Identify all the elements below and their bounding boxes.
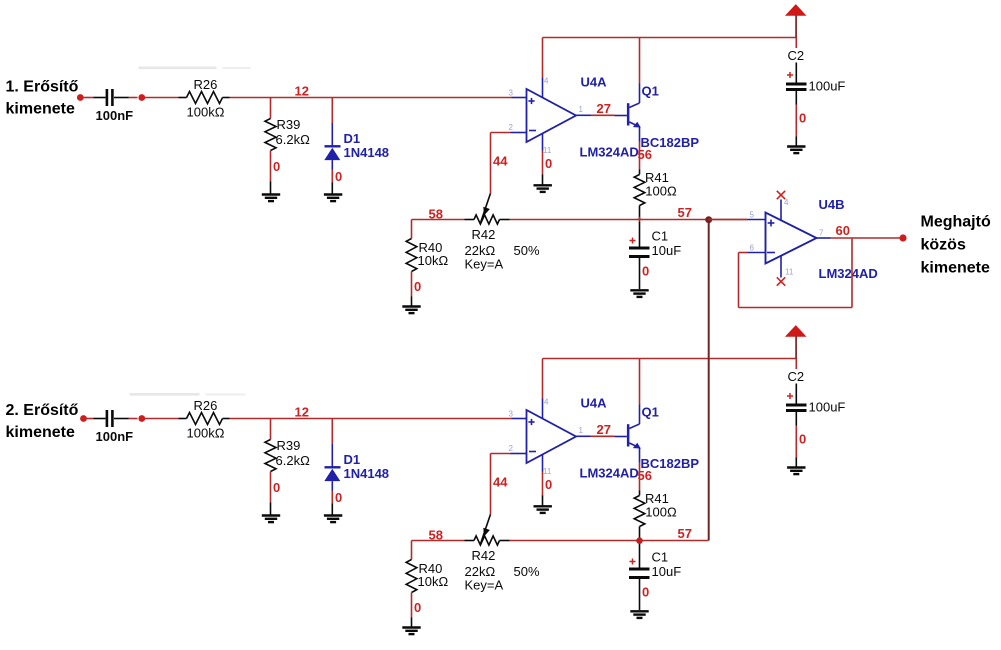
- svg-text:0: 0: [414, 600, 421, 615]
- ground under C1 (amp 1): [630, 290, 648, 297]
- svg-text:Q1: Q1: [642, 84, 659, 99]
- svg-text:44: 44: [493, 475, 508, 490]
- svg-text:kimenete: kimenete: [6, 424, 75, 441]
- svg-text:0: 0: [799, 111, 806, 126]
- wire C100n to dot (amp 1): [129, 97, 138, 99]
- svg-text:0: 0: [273, 159, 280, 174]
- svg-text:58: 58: [429, 528, 443, 543]
- ground under D1 (amp 2): [324, 516, 342, 523]
- wire rail down to C2 (amp 1): [795, 38, 797, 49]
- input terminal dot (amp 2): [80, 415, 87, 422]
- wire node 12 down to D1 (amp 1): [331, 98, 333, 124]
- wire D1 to ground, net 0 (amp 2): [331, 491, 333, 516]
- svg-text:R26: R26: [194, 398, 218, 413]
- ground under op-amp (amp 2): [534, 506, 552, 513]
- svg-text:12: 12: [295, 84, 309, 99]
- wire U4B feedback loop: [739, 238, 853, 308]
- svg-text:U4B: U4B: [819, 197, 845, 212]
- junction terminal dot 2 (amp 1): [138, 94, 145, 101]
- svg-text:100kΩ: 100kΩ: [187, 426, 225, 441]
- wire input dot to C100n (amp 1): [83, 97, 93, 99]
- ground under C2 (amp 1): [787, 147, 805, 154]
- svg-text:LM324AD: LM324AD: [580, 466, 639, 481]
- svg-text:közös: közös: [921, 237, 966, 254]
- wire net 58 left segment (amp 2): [412, 540, 465, 542]
- svg-text:U4A: U4A: [581, 396, 608, 411]
- ground under op-amp (amp 1): [534, 185, 552, 192]
- svg-text:D1: D1: [344, 131, 361, 146]
- resistor R39 (amp 1): [265, 117, 310, 151]
- svg-text:2: 2: [509, 123, 514, 132]
- svg-text:12: 12: [295, 405, 309, 420]
- diode D1 (amp 1): [324, 123, 389, 170]
- junction dot net 57 bottom: [636, 537, 643, 544]
- capacitor 100nF (amp 2): [94, 410, 134, 444]
- capacitor 100nF (amp 1): [94, 89, 134, 123]
- wire net 58 down to R40 (amp 1): [411, 220, 413, 239]
- wire U4B output net 60: [831, 237, 900, 239]
- svg-text:0: 0: [335, 490, 342, 505]
- potentiometer R42 (amp 1): [465, 193, 540, 271]
- svg-text:Q1: Q1: [642, 405, 659, 420]
- svg-text:1N4148: 1N4148: [344, 145, 390, 160]
- svg-text:LM324AD: LM324AD: [819, 266, 878, 281]
- svg-text:2: 2: [509, 444, 514, 453]
- svg-text:C2: C2: [788, 48, 805, 63]
- svg-text:50%: 50%: [514, 243, 540, 258]
- svg-text:1: 1: [579, 105, 584, 114]
- svg-text:100Ω: 100Ω: [645, 183, 677, 198]
- svg-text:R42: R42: [472, 548, 496, 563]
- svg-text:10uF: 10uF: [652, 564, 682, 579]
- svg-text:R39: R39: [277, 438, 301, 453]
- wire node 12 down to R39 (amp 2): [270, 419, 272, 440]
- ground under R40 (amp 1): [402, 307, 420, 314]
- wire op-amp pin11 to ground, net 0 (amp 2): [542, 472, 544, 507]
- svg-text:58: 58: [429, 207, 443, 222]
- wire net 44 from op-amp minus to pot wiper (amp 1): [491, 133, 511, 194]
- svg-text:5: 5: [750, 211, 755, 220]
- svg-text:0: 0: [545, 477, 552, 492]
- ground under C2 (amp 2): [787, 468, 805, 475]
- no-connect X on U4B pin 4: [777, 191, 785, 199]
- svg-text:0: 0: [799, 432, 806, 447]
- svg-text:11: 11: [543, 146, 552, 155]
- wire op-amp output net 27 (amp 2): [591, 435, 615, 437]
- wire R39 to ground, net 0 (amp 2): [270, 472, 272, 516]
- svg-text:1N4148: 1N4148: [344, 466, 390, 481]
- wire node 12 down to R39 (amp 1): [270, 98, 272, 119]
- svg-text:27: 27: [597, 422, 611, 437]
- svg-text:11: 11: [543, 467, 552, 476]
- output terminal dot: [899, 234, 906, 241]
- junction R41/C1 on mid wire (amp 2): [637, 538, 643, 544]
- wire C100n to dot (amp 2): [129, 418, 138, 420]
- transistor Q1 (amp 2): [615, 405, 641, 463]
- svg-text:100uF: 100uF: [809, 400, 846, 415]
- svg-text:7: 7: [819, 229, 824, 238]
- resistor R41 (amp 2): [634, 491, 677, 541]
- svg-text:56: 56: [638, 147, 652, 162]
- svg-text:4: 4: [544, 398, 549, 407]
- diode D1 (amp 2): [324, 444, 389, 491]
- svg-text:U4A: U4A: [581, 75, 608, 90]
- wire net 58 left segment (amp 1): [412, 219, 465, 221]
- wire C2 to ground, net 0 (amp 2): [795, 426, 797, 468]
- wire positive rail (amp 2): [543, 358, 797, 360]
- op-amp U4A (amp 2): [511, 399, 591, 472]
- wire D1 to ground, net 0 (amp 1): [331, 170, 333, 195]
- svg-text:100nF: 100nF: [96, 429, 134, 444]
- wire op-amp output net 27 (amp 1): [591, 114, 615, 116]
- wire net 57 right segment (amp 2): [510, 540, 709, 542]
- svg-text:50%: 50%: [514, 564, 540, 579]
- wire Q1 collector to rail (amp 1): [639, 38, 641, 84]
- resistor R40 (amp 2): [406, 560, 448, 593]
- ground under C1 (amp 2): [630, 611, 648, 618]
- junction dot net 57 top: [705, 216, 712, 223]
- svg-text:100Ω: 100Ω: [645, 504, 677, 519]
- wire input dot to C100n (amp 2): [87, 418, 94, 420]
- wire R26 to op-amp + input, net 12 (amp 2): [230, 418, 512, 420]
- svg-text:LM324AD: LM324AD: [580, 145, 639, 160]
- ground under D1 (amp 1): [324, 195, 342, 202]
- op-amp U4B: [748, 200, 831, 278]
- wire dot to R26 (amp 2): [145, 418, 179, 420]
- wire R40 to ground, net 0 (amp 1): [411, 272, 413, 307]
- svg-text:44: 44: [493, 154, 508, 169]
- svg-text:D1: D1: [344, 452, 361, 467]
- wire net 57 interconnect vertical: [708, 220, 710, 541]
- wire node 12 down to D1 (amp 2): [331, 419, 333, 445]
- svg-text:Key=A: Key=A: [465, 578, 504, 593]
- svg-text:4: 4: [784, 198, 789, 207]
- svg-text:10kΩ: 10kΩ: [418, 253, 449, 268]
- svg-text:C1: C1: [652, 229, 669, 244]
- resistor R26 (amp 2): [179, 398, 230, 441]
- svg-text:0: 0: [545, 156, 552, 171]
- svg-text:10uF: 10uF: [652, 243, 682, 258]
- output label: [921, 214, 991, 277]
- junction terminal dot 2 (amp 2): [138, 415, 145, 422]
- resistor R40 (amp 1): [406, 239, 448, 272]
- wire R26 to op-amp + input, net 12 (amp 1): [230, 97, 512, 99]
- svg-text:0: 0: [273, 480, 280, 495]
- capacitor C2 (amp 1): [786, 48, 845, 105]
- svg-text:6: 6: [750, 244, 755, 253]
- svg-text:3: 3: [509, 89, 514, 98]
- power arrow VCC (amp 1): [785, 4, 807, 37]
- svg-text:57: 57: [678, 526, 692, 541]
- svg-text:kimenete: kimenete: [6, 101, 75, 118]
- faint watermark ghost bottom: [130, 393, 246, 396]
- capacitor C1 (amp 1): [629, 222, 681, 290]
- svg-text:C2: C2: [788, 369, 805, 384]
- svg-text:60: 60: [836, 223, 850, 238]
- transistor Q1 (amp 1): [615, 84, 641, 142]
- svg-text:R26: R26: [194, 77, 218, 92]
- svg-text:kimenete: kimenete: [921, 260, 990, 277]
- no-connect X on U4B pin 11: [777, 277, 785, 285]
- wire Q1 collector to rail (amp 2): [639, 359, 641, 405]
- wire R39 to ground, net 0 (amp 1): [270, 151, 272, 195]
- wire net 57 right segment (amp 1): [510, 219, 748, 221]
- input label amp 1: [6, 79, 79, 118]
- wire dot to R26 (amp 1): [145, 97, 179, 99]
- svg-text:R42: R42: [472, 227, 496, 242]
- svg-text:11: 11: [785, 268, 794, 277]
- wire R40 to ground, net 0 (amp 2): [411, 593, 413, 628]
- svg-text:100kΩ: 100kΩ: [187, 105, 225, 120]
- svg-text:1: 1: [579, 426, 584, 435]
- capacitor C1 (amp 2): [629, 543, 681, 611]
- svg-text:Meghajtó: Meghajtó: [921, 214, 991, 231]
- wire op-amp pin11 to ground, net 0 (amp 1): [542, 151, 544, 186]
- wire net 57 to U4B + input: [709, 219, 748, 221]
- wire C2 to ground, net 0 (amp 1): [795, 105, 797, 147]
- svg-text:56: 56: [638, 468, 652, 483]
- svg-text:10kΩ: 10kΩ: [418, 574, 449, 589]
- svg-text:6.2kΩ: 6.2kΩ: [276, 453, 311, 468]
- svg-text:0: 0: [642, 585, 649, 600]
- power arrow VCC (amp 2): [785, 325, 807, 358]
- wire net 58 down to R40 (amp 2): [411, 541, 413, 560]
- wire rail down to C2 (amp 2): [795, 359, 797, 370]
- resistor R41 (amp 1): [634, 170, 677, 220]
- svg-text:0: 0: [335, 169, 342, 184]
- potentiometer R42 (amp 2): [465, 514, 540, 592]
- wire op-amp pin4 up to rail (amp 2): [542, 359, 544, 399]
- resistor R39 (amp 2): [265, 438, 310, 472]
- svg-text:100uF: 100uF: [809, 79, 846, 94]
- ground under R39 (amp 2): [262, 516, 280, 523]
- svg-text:C1: C1: [652, 550, 669, 565]
- input label amp 2: [6, 402, 79, 441]
- faint watermark ghost top: [139, 67, 251, 70]
- svg-text:Key=A: Key=A: [465, 257, 504, 272]
- svg-text:0: 0: [414, 279, 421, 294]
- svg-text:1. Erősítő: 1. Erősítő: [6, 79, 79, 96]
- ground under R40 (amp 2): [402, 628, 420, 635]
- wire Q1 emitter to R41, net 56 (amp 1): [639, 142, 641, 170]
- resistor R26 (amp 1): [179, 77, 230, 120]
- svg-text:0: 0: [642, 264, 649, 279]
- svg-text:57: 57: [678, 205, 692, 220]
- capacitor C2 (amp 2): [786, 369, 845, 426]
- wire Q1 emitter to R41, net 56 (amp 2): [639, 463, 641, 491]
- op-amp U4A (amp 1): [511, 78, 591, 151]
- svg-text:6.2kΩ: 6.2kΩ: [276, 132, 311, 147]
- svg-text:2. Erősítő: 2. Erősítő: [6, 402, 79, 419]
- wire op-amp pin4 up to rail (amp 1): [542, 38, 544, 78]
- wire net 44 from op-amp minus to pot wiper (amp 2): [491, 454, 511, 515]
- svg-text:3: 3: [509, 410, 514, 419]
- ground under R39 (amp 1): [262, 195, 280, 202]
- junction R41/C1 on mid wire (amp 1): [637, 217, 643, 223]
- wire positive rail (amp 1): [543, 37, 797, 39]
- svg-text:R39: R39: [277, 117, 301, 132]
- svg-text:100nF: 100nF: [96, 108, 134, 123]
- svg-text:27: 27: [597, 101, 611, 116]
- input terminal dot (amp 1): [77, 94, 84, 101]
- svg-text:4: 4: [544, 77, 549, 86]
